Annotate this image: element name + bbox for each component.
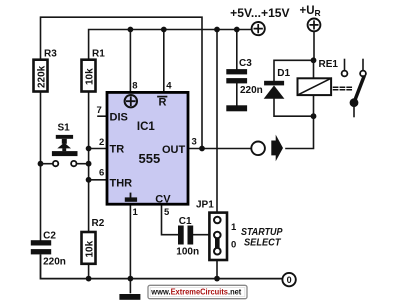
node junction pin8/vcc: [127, 27, 133, 33]
svg-text:555: 555: [139, 151, 161, 166]
svg-text:0: 0: [287, 275, 292, 285]
svg-text:C3: C3: [239, 58, 252, 69]
wire R2 bottom: [88, 266, 90, 279]
svg-text:220n: 220n: [43, 257, 66, 268]
capacitor C2: [31, 240, 51, 245]
svg-text:3: 3: [192, 137, 197, 148]
wire OUT pin3: [189, 148, 250, 150]
pin1 internal ground mark: [130, 194, 132, 199]
wire JP1 column: [216, 30, 218, 213]
svg-text:www.ExtremeCircuits.net: www.ExtremeCircuits.net: [150, 288, 241, 297]
svg-text:220k: 220k: [36, 65, 47, 88]
wire pin4 column: [163, 30, 165, 92]
wire D1 bottom link: [274, 99, 314, 117]
svg-text:4: 4: [166, 81, 172, 92]
ground bar bottom center: [119, 294, 140, 300]
ground bar below C3: [226, 105, 247, 111]
node junction JP1/vcc: [214, 27, 220, 33]
jumper JP1: [196, 200, 237, 261]
svg-text:10k: 10k: [84, 240, 95, 257]
svg-text:OUT: OUT: [162, 144, 186, 156]
wire D1 top link: [274, 60, 314, 81]
svg-text:SELECT: SELECT: [244, 237, 282, 249]
wire C1 to JP1 middle: [193, 234, 213, 236]
node junction R2/ground rail: [86, 276, 92, 282]
svg-text:2: 2: [99, 137, 104, 148]
wire vcc rail: [89, 30, 252, 59]
svg-text:+5V...+15V: +5V...+15V: [230, 8, 290, 20]
wire JP1 bottom to ground rail: [216, 261, 218, 279]
svg-text:RE1: RE1: [319, 59, 339, 70]
relay switch contacts: [342, 60, 366, 117]
svg-text:10k: 10k: [84, 68, 95, 85]
node junction S1 left: [38, 161, 44, 167]
pin 8 plus-circle marker: [125, 95, 137, 107]
relay linkage dashed: [334, 87, 353, 90]
svg-text:0: 0: [231, 240, 236, 251]
svg-text:220n: 220n: [240, 85, 263, 96]
pushbutton S1: [41, 123, 89, 167]
node junction OUT/feedback: [199, 146, 205, 152]
output arrow: [271, 135, 283, 162]
svg-text:S1: S1: [58, 123, 71, 134]
node junction JP1/ground rail: [214, 276, 220, 282]
svg-text:1: 1: [231, 222, 237, 233]
node junction RE1 top: [311, 57, 317, 63]
svg-text:DIS: DIS: [110, 112, 128, 124]
svg-text:R1: R1: [92, 49, 105, 60]
op-amp? no: IC U1 555 timer body: [107, 92, 188, 205]
wire pin7 DIS stub: [98, 115, 107, 117]
svg-text:5: 5: [164, 207, 170, 218]
node junction THR: [86, 177, 92, 183]
node junction pin1/ground rail: [127, 276, 133, 282]
svg-text:IC1: IC1: [137, 121, 156, 133]
wire pin8 column: [129, 30, 131, 92]
svg-text:8: 8: [132, 81, 137, 92]
wire R3 bottom to C2: [40, 93, 42, 241]
wire C3 column: [236, 30, 238, 70]
svg-text:D1: D1: [277, 68, 290, 79]
node junction S1 right: [86, 161, 92, 167]
node junction TR: [86, 146, 92, 152]
svg-text:100n: 100n: [176, 247, 199, 258]
svg-text:C2: C2: [43, 231, 56, 242]
resistor R2: [82, 232, 96, 264]
svg-text:THR: THR: [110, 177, 133, 189]
wire pin1 column to ground: [129, 206, 131, 293]
resistor R3: [34, 60, 48, 92]
wire arrow to relay column: [286, 116, 314, 148]
wire R1 bottom column: [88, 93, 90, 231]
svg-text:JP1: JP1: [196, 200, 214, 211]
svg-text:R: R: [159, 96, 167, 108]
resistor R1: [82, 60, 96, 92]
wire +UR to relay: [313, 31, 315, 60]
banner www.ExtremeCircuits.net: [148, 285, 247, 298]
svg-text:6: 6: [99, 168, 104, 179]
svg-text:+UR: +UR: [300, 5, 321, 18]
capacitor C3: [226, 69, 247, 74]
svg-text:TR: TR: [110, 144, 125, 156]
capacitor C1: [178, 226, 184, 245]
wire top feedback rail: [41, 17, 203, 148]
svg-text:CV: CV: [155, 193, 171, 205]
wire C3 to ground: [236, 83, 238, 105]
output pad circle: [251, 142, 265, 156]
node junction C3/vcc: [234, 27, 240, 33]
wire pin6 THR: [89, 179, 107, 181]
svg-text:R3: R3: [44, 49, 57, 60]
wire pin2 TR: [89, 148, 107, 150]
svg-text:1: 1: [133, 207, 139, 218]
ground terminal 0: [282, 273, 295, 286]
wire pin5 CV to C1: [162, 206, 179, 235]
wire C2 bottom to ground rail: [41, 255, 283, 278]
svg-text:C1: C1: [179, 216, 192, 227]
svg-text:7: 7: [97, 105, 102, 116]
node junction pin4/vcc: [161, 27, 167, 33]
node junction RE1 bottom: [311, 113, 317, 119]
svg-text:R2: R2: [92, 218, 105, 229]
